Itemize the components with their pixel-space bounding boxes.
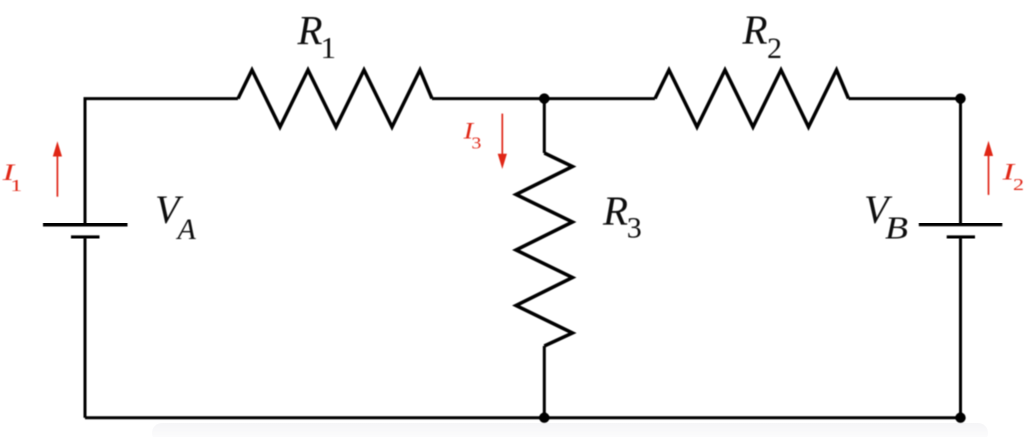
svg-text:R: R [297, 7, 323, 53]
svg-text:3: 3 [471, 134, 481, 153]
svg-text:R: R [602, 188, 628, 234]
svg-text:3: 3 [627, 212, 642, 245]
svg-text:2: 2 [767, 32, 782, 65]
svg-text:1: 1 [321, 30, 337, 65]
svg-text:1: 1 [10, 176, 22, 195]
svg-text:B: B [885, 211, 908, 246]
svg-text:2: 2 [1013, 175, 1024, 194]
svg-text:A: A [176, 213, 197, 246]
svg-text:R: R [742, 7, 768, 53]
